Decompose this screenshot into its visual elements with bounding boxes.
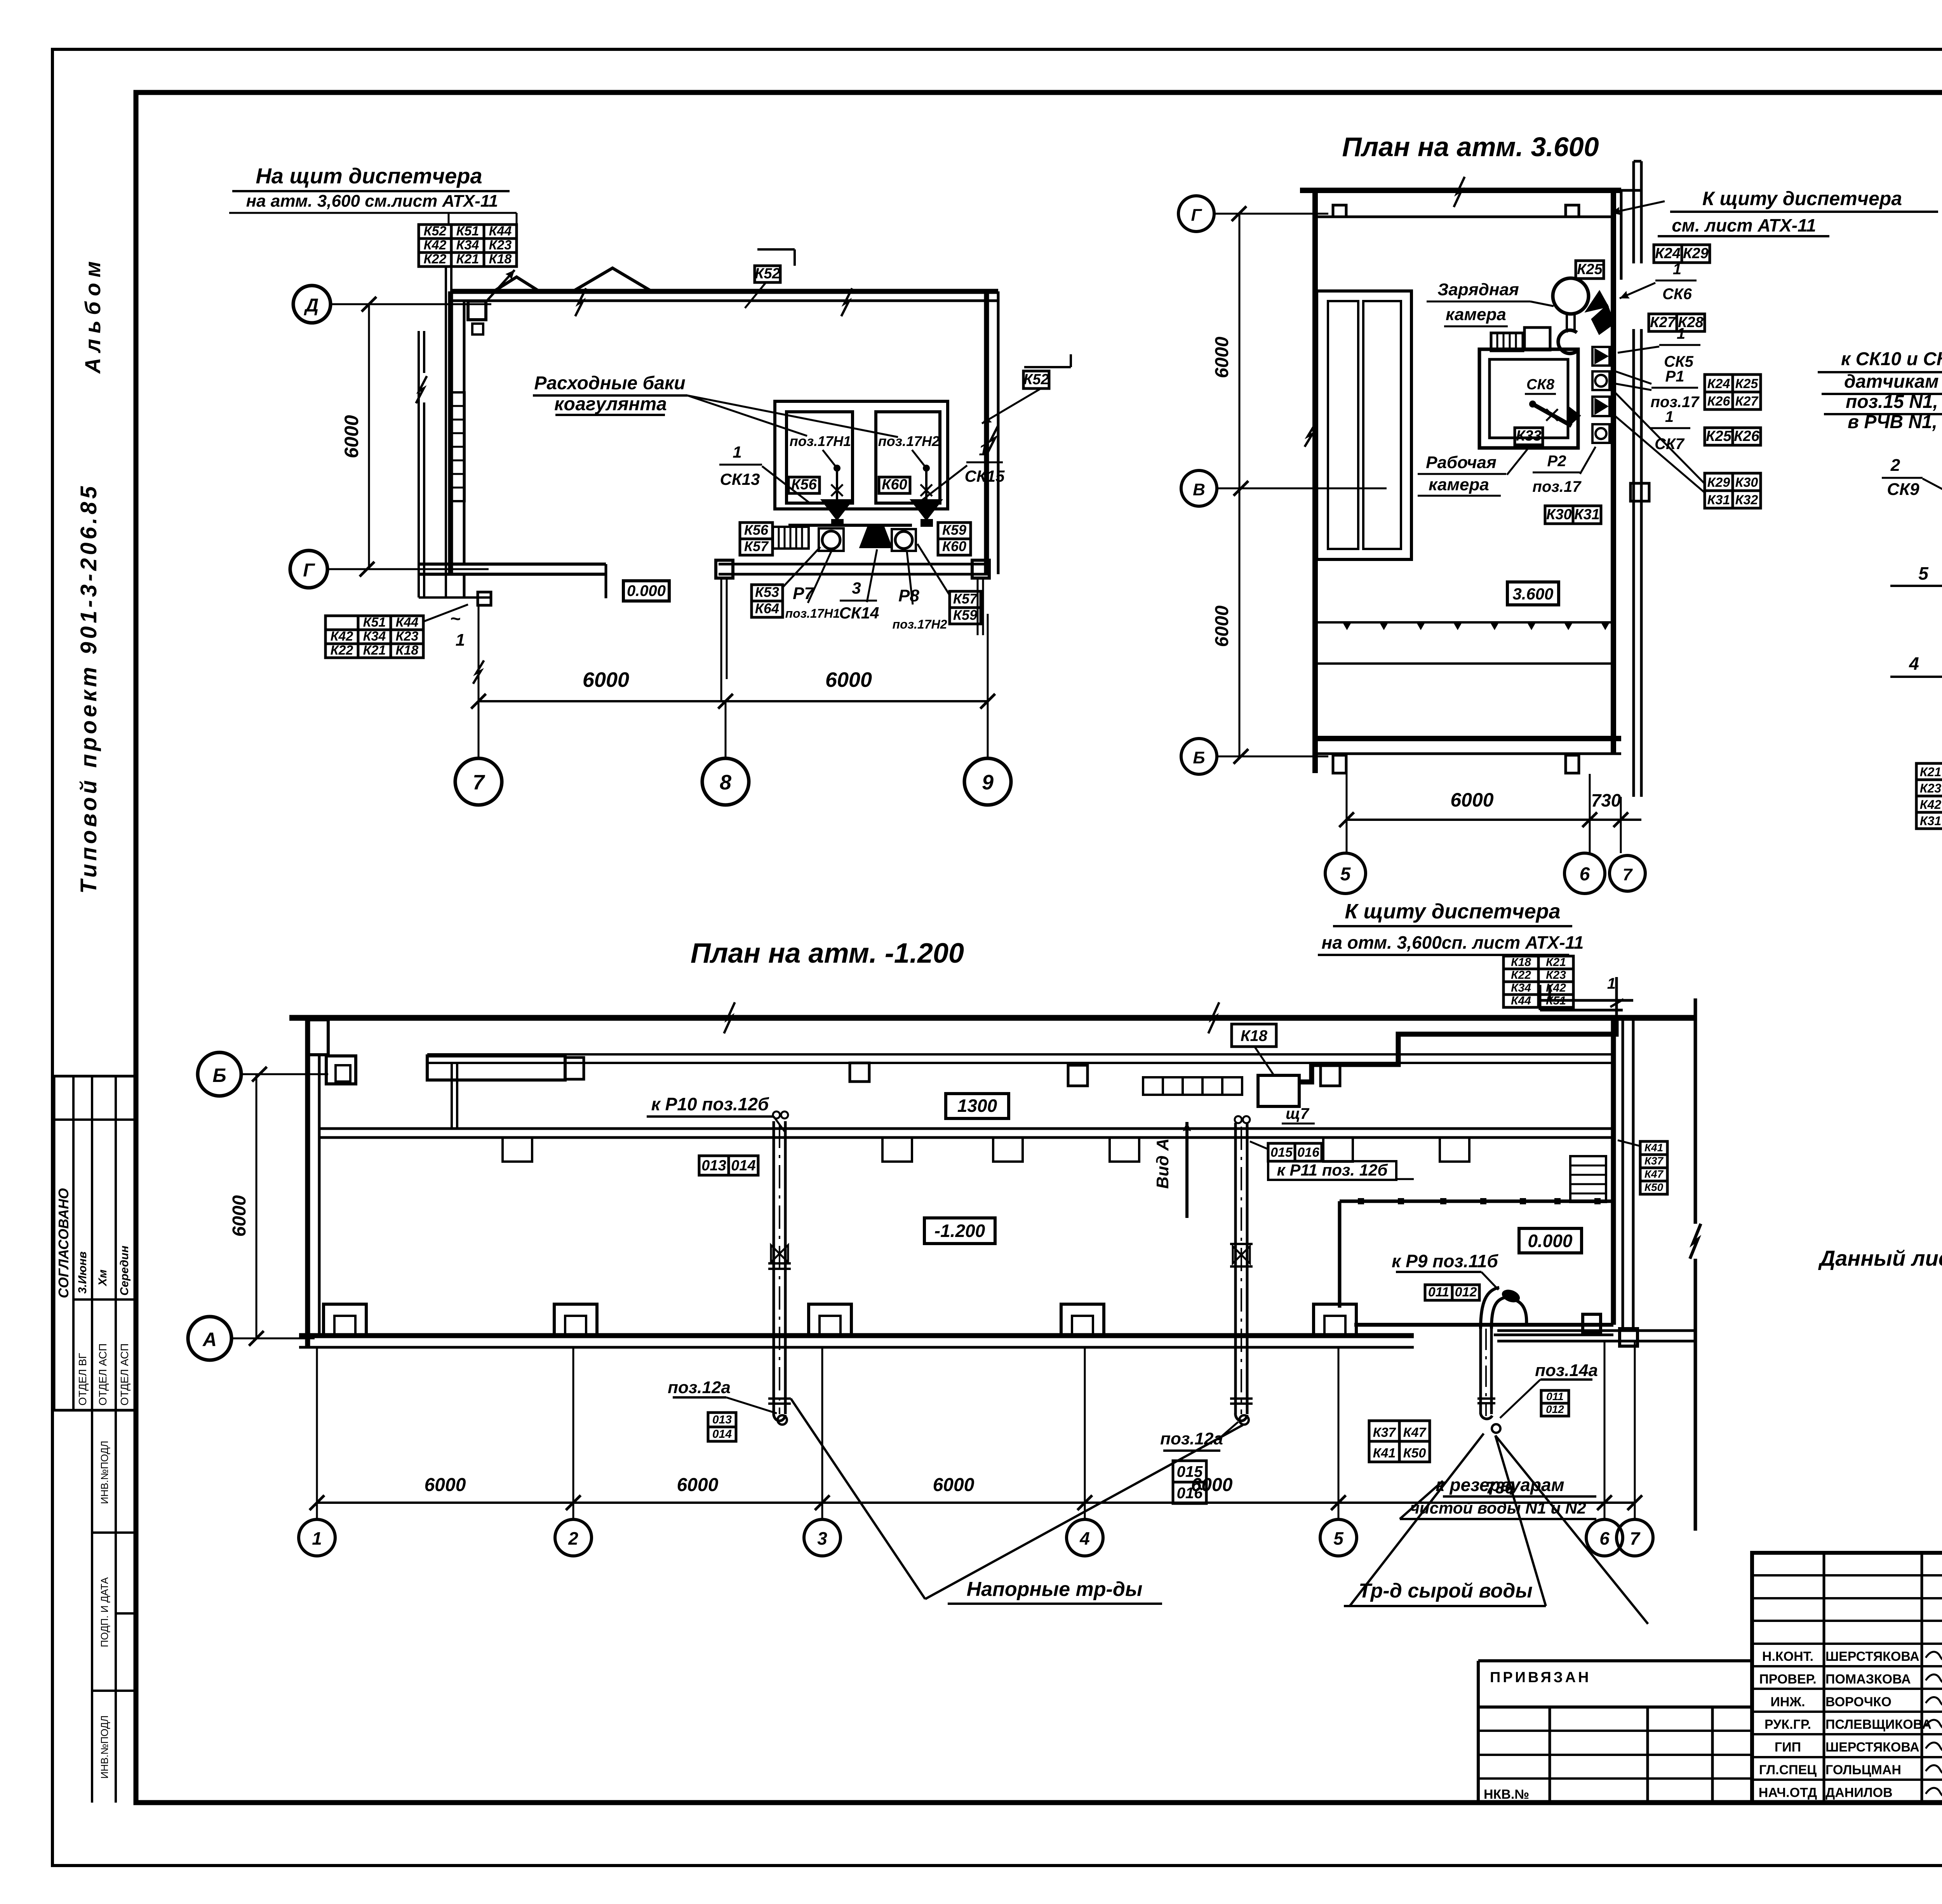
thick cable trunk across plan3 (1299, 1019, 1616, 1082)
K52 flag (top) (757, 248, 795, 251)
svg-text:011: 011 (1428, 1285, 1449, 1300)
room 0.000 bottom wall (1354, 1323, 1613, 1327)
svg-text:014: 014 (731, 1158, 755, 1174)
svg-text:К44: К44 (489, 224, 512, 239)
svg-text:К50: К50 (1403, 1446, 1426, 1460)
svg-text:ШЕРСТЯКОВА: ШЕРСТЯКОВА (1825, 1649, 1919, 1664)
plan1 top wall (451, 289, 998, 294)
svg-text:К31: К31 (1574, 507, 1600, 523)
svg-text:Б: Б (1193, 748, 1205, 767)
leader Р8 to pump P8 (907, 552, 913, 604)
column square on upper band (left) (1068, 1065, 1088, 1086)
svg-text:3.Июнв: 3.Июнв (76, 1251, 89, 1294)
svg-text:1: 1 (1665, 408, 1674, 425)
svg-text:К41: К41 (1644, 1142, 1663, 1154)
valve on riser 2 (1233, 1246, 1241, 1263)
axis line Б (plan3) (241, 1073, 328, 1075)
svg-text:щ7: щ7 (1286, 1105, 1309, 1122)
K59/K60 stacked boxes (938, 523, 971, 539)
right wall pocket (1621, 189, 1641, 192)
flag 1 near table (1615, 977, 1618, 1018)
leader to working chamber (1507, 448, 1529, 475)
K52 flag (right) (1024, 366, 1071, 368)
svg-text:К57: К57 (953, 591, 978, 607)
svg-text:7: 7 (473, 771, 486, 794)
svg-text:К21: К21 (363, 643, 386, 658)
valve (filled) under tank N1 (823, 500, 851, 519)
axis circle 9 (964, 758, 1011, 805)
svg-text:К44: К44 (396, 615, 419, 630)
K18 box with leader (1232, 1024, 1276, 1047)
pipe bottom cap (1481, 1413, 1492, 1419)
svg-text:поз.17: поз.17 (1651, 394, 1700, 411)
svg-text:СК13: СК13 (720, 470, 760, 488)
svg-text:015: 015 (1270, 1145, 1293, 1160)
break symbol on right wall (987, 425, 998, 453)
level mark 0.000 (plan3) (1519, 1228, 1582, 1253)
pump P8 (circle in frame) (892, 529, 916, 551)
svg-text:К56: К56 (791, 477, 817, 493)
svg-text:ПРИВЯЗАН: ПРИВЯЗАН (1490, 1669, 1591, 1686)
svg-text:в РЧВ N1, N2: в РЧВ N1, N2 (1848, 412, 1942, 432)
svg-text:6000: 6000 (425, 1475, 466, 1495)
svg-text:2: 2 (568, 1528, 578, 1549)
comb block (radiator) near working chamber (1491, 333, 1523, 351)
pipe run at top right (1540, 999, 1633, 1002)
svg-text:6000: 6000 (825, 668, 872, 692)
K24 K29 boxes (1654, 245, 1682, 263)
axis circle 5 (plan2) (1325, 853, 1366, 894)
svg-text:К26: К26 (1707, 394, 1731, 409)
svg-text:К23: К23 (396, 629, 419, 644)
svg-text:К33: К33 (1516, 428, 1542, 444)
K53/K64 stacked boxes (752, 585, 783, 601)
lower area divider line (1317, 662, 1613, 665)
column marks on upper band (565, 1057, 584, 1079)
plan3 left wall (305, 1018, 310, 1347)
svg-text:К18: К18 (396, 643, 419, 658)
svg-text:К25: К25 (1735, 376, 1759, 391)
svg-text:3: 3 (852, 579, 861, 597)
dimension line 1-7 (plan3) (317, 1502, 1635, 1504)
svg-text:К37: К37 (1373, 1425, 1397, 1440)
svg-text:поз.17Н1: поз.17Н1 (785, 606, 840, 620)
riser 2 bottom cap (1236, 1413, 1247, 1421)
interior shaft (stair opening) (1317, 291, 1411, 559)
tank N2 (876, 412, 940, 503)
approval table (Согласовано) (54, 1076, 135, 1410)
svg-text:СК8: СК8 (1526, 376, 1555, 393)
svg-text:1: 1 (1607, 975, 1616, 992)
svg-text:К31: К31 (1920, 814, 1941, 828)
svg-text:6000: 6000 (1212, 605, 1232, 647)
svg-text:Хм: Хм (96, 1270, 109, 1287)
svg-text:730: 730 (1486, 1478, 1514, 1497)
svg-text:0.000: 0.000 (627, 582, 666, 599)
filled trapezoid valve between pumps (861, 527, 891, 547)
svg-text:1: 1 (733, 443, 741, 461)
svg-text:СК15: СК15 (965, 467, 1005, 485)
axis circle Г (290, 550, 327, 588)
011 012 boxes (1425, 1285, 1452, 1300)
svg-text:Б: Б (212, 1064, 226, 1086)
svg-text:НКВ.№: НКВ.№ (1484, 1787, 1529, 1802)
pipe hook blob (pump P9 connection) (1500, 1287, 1521, 1305)
svg-text:Н.КОНТ.: Н.КОНТ. (1762, 1649, 1813, 1664)
pipe drop (right) (977, 578, 979, 635)
attachment extension table (1477, 1661, 1480, 1803)
svg-text:ОТДЕЛ ВГ: ОТДЕЛ ВГ (77, 1353, 89, 1406)
junction block on room bottom wall (1583, 1314, 1601, 1333)
svg-text:План на атм. -1.200: План на атм. -1.200 (691, 938, 964, 969)
svg-text:камера: камера (1429, 475, 1489, 494)
leader Р2 to device (1580, 447, 1596, 474)
wall device 3 (filled triangle) (1592, 397, 1610, 416)
svg-text:Расходные баки: Расходные баки (534, 373, 685, 394)
K27 K28 boxes (1649, 314, 1677, 331)
svg-text:К60: К60 (942, 538, 966, 554)
svg-text:ДАНИЛОВ: ДАНИЛОВ (1825, 1785, 1893, 1800)
leader K53 box to pump P7 (783, 547, 820, 587)
axis circle А (plan3) (188, 1317, 231, 1360)
svg-text:012: 012 (1546, 1403, 1564, 1415)
break on plan2 top wall (1454, 177, 1465, 207)
svg-text:К23: К23 (489, 238, 512, 253)
svg-text:К22: К22 (424, 252, 447, 267)
svg-text:К51: К51 (363, 615, 386, 630)
svg-text:К60: К60 (882, 477, 907, 493)
svg-text:СК6: СК6 (1662, 286, 1692, 303)
leader P7 to pump (808, 552, 831, 603)
leader wires from label to tanks (687, 395, 807, 436)
svg-text:К42: К42 (424, 238, 447, 253)
floor edge line with ticks (1317, 621, 1613, 624)
plan1 left wall (448, 291, 453, 574)
K25 K26 boxes (1705, 428, 1733, 445)
svg-text:К32: К32 (1735, 493, 1758, 507)
K56/K57 stacked boxes (740, 523, 773, 539)
upper interior band (427, 1053, 1616, 1056)
svg-text:6000: 6000 (933, 1475, 974, 1495)
junction block at pipe corner (1620, 1329, 1637, 1346)
svg-text:К42: К42 (1920, 798, 1941, 812)
svg-text:6000: 6000 (229, 1195, 250, 1237)
K33 box (1515, 428, 1543, 445)
axis line Г (327, 568, 489, 570)
svg-text:Тр-д сырой воды: Тр-д сырой воды (1359, 1580, 1533, 1602)
svg-text:ПСЛЕВЩИКОВА: ПСЛЕВЩИКОВА (1825, 1717, 1932, 1732)
K25 box (1576, 261, 1604, 279)
svg-text:СОГЛАСОВАНО: СОГЛАСОВАНО (56, 1188, 71, 1298)
svg-text:К37: К37 (1644, 1155, 1664, 1167)
vertical dimension (plan3) (256, 1074, 258, 1338)
plan2 right wall (1611, 190, 1616, 754)
bottom cable table (blank K51 K44 / K42 K34 K23 / K22 K21 K18) (325, 616, 358, 630)
015/016 stack below riser2 (1173, 1461, 1206, 1482)
column block at axis Д corner (468, 301, 486, 320)
svg-text:К50: К50 (1644, 1181, 1664, 1193)
svg-text:НАЧ.ОТД: НАЧ.ОТД (1759, 1785, 1817, 1800)
svg-text:к Р11 поз. 12б: к Р11 поз. 12б (1277, 1161, 1388, 1179)
svg-text:на отм. 3,600сп. лист АТХ-11: на отм. 3,600сп. лист АТХ-11 (1322, 932, 1584, 953)
svg-text:К64: К64 (755, 601, 779, 617)
svg-text:К18: К18 (1241, 1028, 1268, 1045)
leader СК6 arrow to valve (1620, 283, 1655, 298)
svg-text:поз.12а: поз.12а (668, 1378, 731, 1397)
axis circle 7 (455, 758, 502, 805)
svg-text:К24: К24 (1707, 376, 1730, 391)
svg-text:6: 6 (1599, 1528, 1610, 1549)
svg-text:6000: 6000 (1212, 336, 1232, 378)
title block rows (1752, 1574, 1942, 1577)
svg-text:К42: К42 (331, 629, 353, 644)
leader V to risers (791, 1399, 925, 1599)
leader K57/K59 box to pump P8 (917, 544, 950, 595)
svg-text:поз.14а: поз.14а (1535, 1361, 1598, 1380)
svg-text:К51: К51 (1546, 995, 1566, 1007)
cable table K52 K51 K44 / K42 K34 K23 / K22 K21 K18 (419, 225, 451, 239)
small box above working chamber (1524, 327, 1550, 350)
svg-text:К30: К30 (1546, 507, 1572, 523)
svg-text:К23: К23 (1546, 969, 1566, 982)
svg-text:1: 1 (312, 1528, 322, 1549)
svg-text:7: 7 (1623, 865, 1633, 884)
svg-text:ИНЖ.: ИНЖ. (1770, 1695, 1805, 1709)
wire from subtitle to cable table (516, 213, 518, 225)
label к Р11 поз. 12б (boxed) (1268, 1161, 1396, 1180)
svg-text:Р8: Р8 (898, 586, 919, 605)
leader СК9 to box1 (1923, 479, 1942, 537)
svg-text:Середин: Середин (118, 1246, 131, 1296)
leaders to raw water pipe (1350, 1434, 1484, 1606)
svg-text:К59: К59 (942, 522, 966, 538)
svg-text:К44: К44 (1511, 995, 1531, 1007)
011/012 stack (1541, 1390, 1569, 1403)
corner notch top-left (308, 1020, 328, 1055)
column footings on bottom wall (324, 1304, 366, 1336)
column riser from band to interior wall (451, 1063, 453, 1129)
leader СК13 to valve (762, 466, 810, 503)
axis drops to circles 5 6 7 (1346, 774, 1348, 853)
svg-text:К47: К47 (1403, 1425, 1427, 1440)
svg-text:поз.15 N1, N2: поз.15 N1, N2 (1846, 392, 1942, 412)
pipe corridor at room bottom (1497, 1329, 1695, 1332)
wall device 4 (circle) (1592, 424, 1610, 443)
svg-text:На щит диспетчера: На щит диспетчера (256, 164, 482, 188)
column mark below bottom wall (left) (1333, 755, 1346, 773)
svg-text:СК9: СК9 (1887, 480, 1919, 499)
svg-text:ОТДЕЛ АСП: ОТДЕЛ АСП (118, 1343, 131, 1406)
svg-text:5: 5 (1918, 563, 1929, 584)
svg-text:Типовой проект 901-3-206.85: Типовой проект 901-3-206.85 (76, 483, 101, 894)
svg-text:План на атм. 3.600: План на атм. 3.600 (1342, 132, 1599, 162)
svg-text:К53: К53 (755, 584, 779, 600)
leader СК15 to valve (915, 465, 967, 506)
svg-text:К23: К23 (1920, 781, 1941, 795)
raw water pipe (curved) (1479, 1327, 1482, 1414)
svg-text:К41: К41 (1373, 1446, 1396, 1460)
svg-text:6000: 6000 (1450, 789, 1493, 811)
plan1 bottom wall stubs (419, 563, 606, 566)
hook symbol (1558, 330, 1578, 354)
K30 K31 boxes (1545, 506, 1573, 524)
K60 box (879, 477, 910, 493)
corner block at bottom-left of plan1 (478, 592, 491, 605)
svg-text:Зарядная: Зарядная (1437, 280, 1519, 299)
dimension line 7-8-9 (479, 700, 988, 702)
svg-text:Р1: Р1 (1665, 368, 1684, 385)
svg-text:К21: К21 (1920, 765, 1941, 779)
pipe manifold under tanks (788, 524, 912, 527)
svg-text:ШЕРСТЯКОВА: ШЕРСТЯКОВА (1825, 1740, 1919, 1755)
plan1 right wall (984, 291, 989, 574)
riser 1 bottom cap (774, 1413, 785, 1421)
svg-text:ВОРОЧКО: ВОРОЧКО (1825, 1695, 1892, 1709)
level sensor stem in tank N1 (823, 450, 837, 468)
axis circle 6 (plan2) (1564, 853, 1605, 894)
title block outline (1752, 1553, 1942, 1803)
svg-text:К29: К29 (1707, 475, 1730, 490)
svg-text:СК14: СК14 (839, 604, 879, 622)
svg-text:К51: К51 (456, 224, 479, 239)
axis circle Б (plan3) (198, 1052, 241, 1096)
pipe chase strip right of wall (1632, 329, 1635, 797)
leaders P1 to devices (1611, 370, 1651, 384)
svg-text:К25: К25 (1577, 261, 1603, 278)
filled valve at charging chamber (1587, 292, 1607, 311)
dispatcher cable table K21..K31 (1916, 763, 1942, 780)
axis drop lines to circles 7 8 9 (478, 606, 480, 758)
svg-text:К щиту диспетчера: К щиту диспетчера (1702, 188, 1902, 209)
axis circles 1-7 (plan3) (299, 1519, 335, 1556)
break on shaft edge (1305, 423, 1316, 447)
arrow from text to wall corner (1611, 201, 1665, 213)
K37 K47 / K41 K50 table (1369, 1421, 1399, 1441)
svg-text:Данный лист читать совместно с: Данный лист читать совместно с листом АТ… (1818, 1246, 1942, 1270)
svg-text:поз.17Н2: поз.17Н2 (893, 617, 947, 631)
plan2 top wall (1300, 188, 1621, 193)
svg-text:К18: К18 (489, 252, 512, 267)
interior wall with supports (318, 1127, 1613, 1130)
axis circle В (plan2) (1181, 470, 1217, 506)
svg-text:Рабочая: Рабочая (1426, 453, 1497, 472)
svg-text:6000: 6000 (341, 415, 362, 458)
flanges on riser 1 (768, 1397, 791, 1400)
view direction arrow Вид А (1185, 1122, 1189, 1218)
panel щ7 main block (1258, 1075, 1299, 1106)
riser pipe 1 (773, 1121, 775, 1414)
svg-text:К47: К47 (1644, 1168, 1664, 1180)
svg-text:К52: К52 (755, 265, 780, 282)
axis circle 8 (702, 758, 749, 805)
axis circle Д (293, 286, 331, 323)
svg-text:2: 2 (1890, 456, 1900, 475)
svg-text:К25: К25 (1706, 428, 1731, 444)
svg-text:К52: К52 (1023, 371, 1049, 388)
svg-text:К21: К21 (1546, 956, 1566, 969)
axis line В (plan2) (1217, 488, 1387, 490)
svg-text:К27: К27 (1735, 394, 1759, 409)
svg-text:см. лист АТХ-11: см. лист АТХ-11 (1672, 215, 1816, 235)
leader СК14 to trapezoid valve (867, 549, 877, 602)
axis drop lines (plan3) (316, 1347, 318, 1518)
015 016 boxes (1268, 1143, 1295, 1161)
svg-text:К27: К27 (1650, 314, 1676, 331)
svg-text:коагулянта: коагулянта (554, 394, 667, 415)
column mark on top wall (left) (1333, 205, 1346, 217)
riser pipe 2 (1234, 1123, 1237, 1414)
leader to reservoir pipe (1422, 1490, 1437, 1496)
vertical dimension 6000 between Д and Г (368, 304, 370, 569)
plan1 roof gable (large) (573, 268, 652, 291)
svg-text:013: 013 (712, 1413, 732, 1426)
svg-text:Д: Д (304, 295, 319, 316)
charging chamber device circle (Зарядная камера) (1553, 278, 1589, 314)
pipe junction box right (972, 560, 989, 578)
svg-text:6000: 6000 (583, 668, 629, 692)
svg-text:011: 011 (1546, 1390, 1564, 1402)
svg-text:1: 1 (979, 441, 988, 459)
svg-text:014: 014 (712, 1428, 732, 1441)
column mark on top wall (right) (1566, 205, 1579, 217)
svg-text:к Р9 поз.11б: к Р9 поз.11б (1392, 1251, 1498, 1271)
svg-text:9: 9 (982, 771, 994, 794)
svg-text:4: 4 (1909, 653, 1919, 674)
axis circle 7 (plan2) (1610, 855, 1645, 891)
svg-text:Р2: Р2 (1547, 453, 1566, 470)
svg-text:поз.12а: поз.12а (1160, 1429, 1223, 1448)
column footing at axis Б (326, 1056, 356, 1084)
svg-text:4: 4 (1079, 1528, 1090, 1549)
dimension line 5-6-7 (plan2) (1347, 819, 1641, 821)
svg-text:камера: камера (1446, 305, 1506, 324)
valve on riser 1 (771, 1245, 780, 1262)
svg-text:К52: К52 (424, 224, 447, 239)
013 014 boxes (bold) (699, 1156, 729, 1175)
grate (hatched block) (773, 527, 809, 549)
K24 K25 / K26 K27 table (1705, 375, 1733, 392)
svg-text:К21: К21 (456, 252, 479, 267)
axis circle Г (plan2) (1178, 196, 1214, 232)
svg-text:К24: К24 (1655, 246, 1681, 262)
level mark 3.600 (1507, 582, 1559, 605)
svg-text:5: 5 (1340, 864, 1351, 885)
level sensor stem in tank N2 (912, 450, 926, 468)
svg-text:К34: К34 (456, 238, 479, 253)
svg-text:К29: К29 (1683, 246, 1709, 262)
room 0.000 left wall (1338, 1201, 1342, 1308)
stairs (1570, 1156, 1606, 1202)
svg-text:Вид А: Вид А (1153, 1138, 1172, 1189)
inventory strip table (91, 1410, 93, 1803)
svg-text:ИНВ.№ПОДЛ: ИНВ.№ПОДЛ (99, 1441, 110, 1504)
svg-text:1: 1 (456, 631, 465, 650)
K57/K59 stacked boxes (950, 591, 981, 608)
plan3 top wall (289, 1015, 1695, 1021)
013/014 stack below riser1 (708, 1413, 736, 1427)
plan1 roof gable (small, at corner) (492, 277, 541, 292)
svg-text:ГОЛЬЦМАН: ГОЛЬЦМАН (1825, 1763, 1901, 1777)
vertical dimension line (plan2) (1239, 214, 1241, 756)
svg-text:К57: К57 (744, 538, 769, 554)
K56 box (788, 477, 820, 493)
pipe chase upper segment (1632, 161, 1635, 263)
cable conduit on outside of left wall (418, 331, 420, 598)
working chamber (Рабочая камера) (1479, 349, 1578, 448)
pipe flanges (1477, 1397, 1495, 1400)
beam block on upper band (427, 1056, 565, 1080)
level mark -1.200 (924, 1218, 995, 1244)
